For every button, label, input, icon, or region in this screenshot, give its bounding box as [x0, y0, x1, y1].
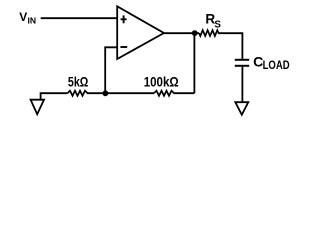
- svg-text:LOAD: LOAD: [263, 59, 290, 72]
- svg-text:5kΩ: 5kΩ: [68, 73, 88, 89]
- svg-text:100kΩ: 100kΩ: [144, 73, 179, 89]
- svg-text:IN: IN: [28, 16, 37, 26]
- svg-text:S: S: [214, 20, 221, 31]
- svg-text:V: V: [19, 10, 27, 24]
